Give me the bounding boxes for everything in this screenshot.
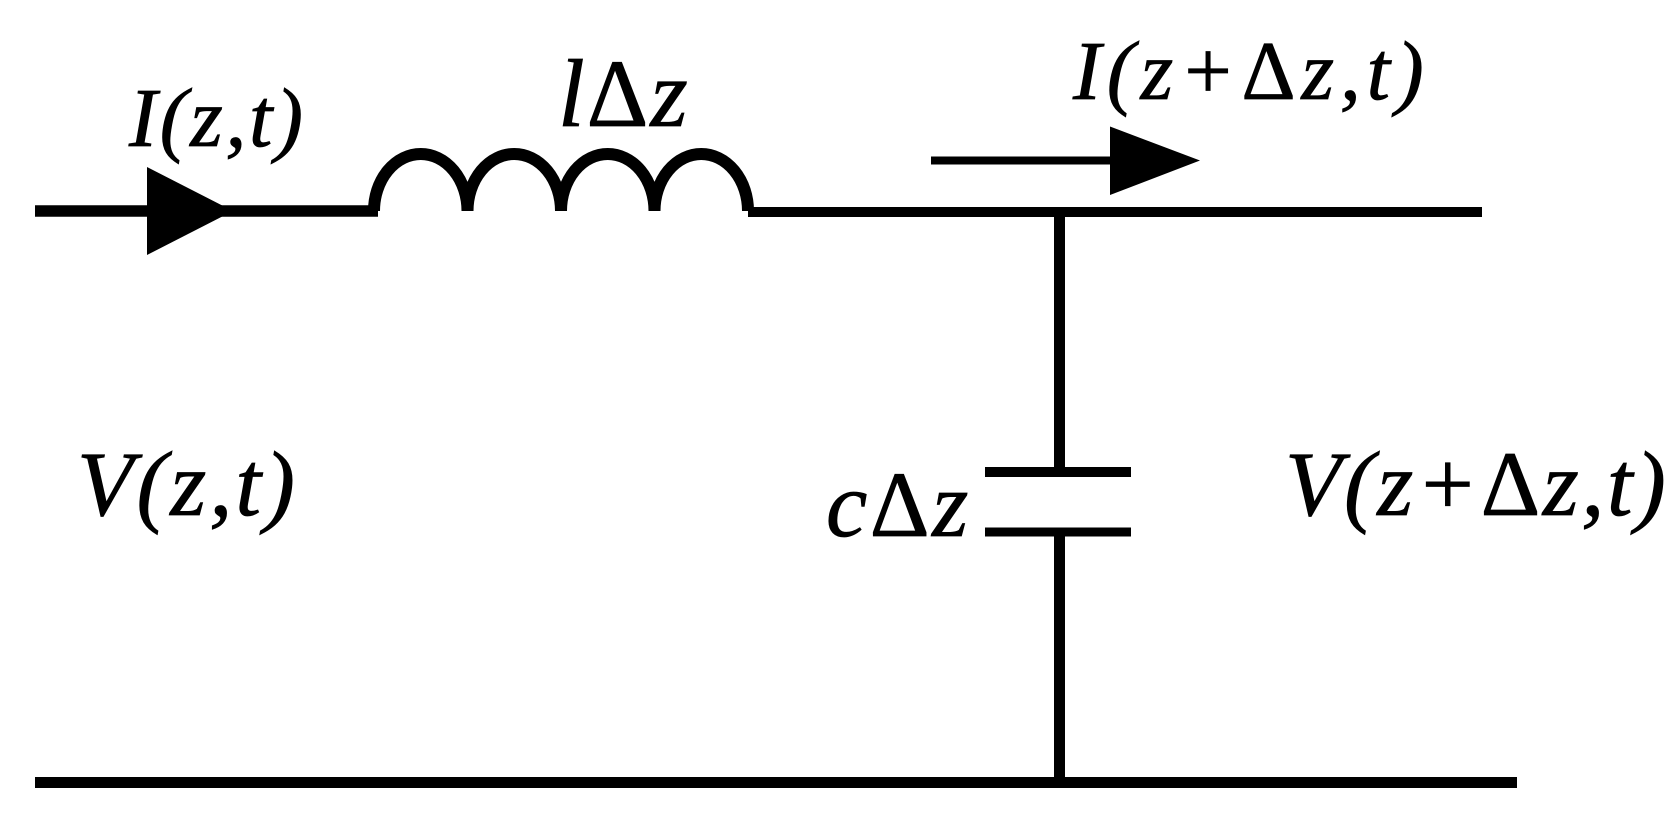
- label cΔz: [826, 452, 971, 559]
- wire: capacitor top lead (junction to top plate): [1054, 212, 1065, 472]
- label V(z,t): [77, 432, 298, 538]
- current arrow shaft for I(z+Δz,t): [931, 157, 1112, 165]
- label I(z,t): [129, 70, 306, 167]
- wire: capacitor bottom lead (bottom plate to bottom wire): [1054, 532, 1065, 783]
- inductor lΔz (4 humps): [374, 154, 748, 211]
- wire: top-left horizontal from left edge to inductor: [35, 205, 378, 217]
- current arrow for I(z,t) on top-left wire: [147, 167, 233, 255]
- wire: top-right horizontal from inductor to right end: [748, 207, 1482, 217]
- wire: bottom return conductor: [35, 777, 1517, 788]
- label lΔz: [558, 38, 690, 149]
- capacitor cΔz top plate: [985, 467, 1131, 477]
- label I(z+Δz,t): [1073, 23, 1430, 120]
- label V(z+Δz,t): [1285, 432, 1668, 538]
- current arrow head for I(z+Δz,t): [1110, 127, 1200, 196]
- capacitor cΔz bottom plate: [985, 528, 1131, 537]
